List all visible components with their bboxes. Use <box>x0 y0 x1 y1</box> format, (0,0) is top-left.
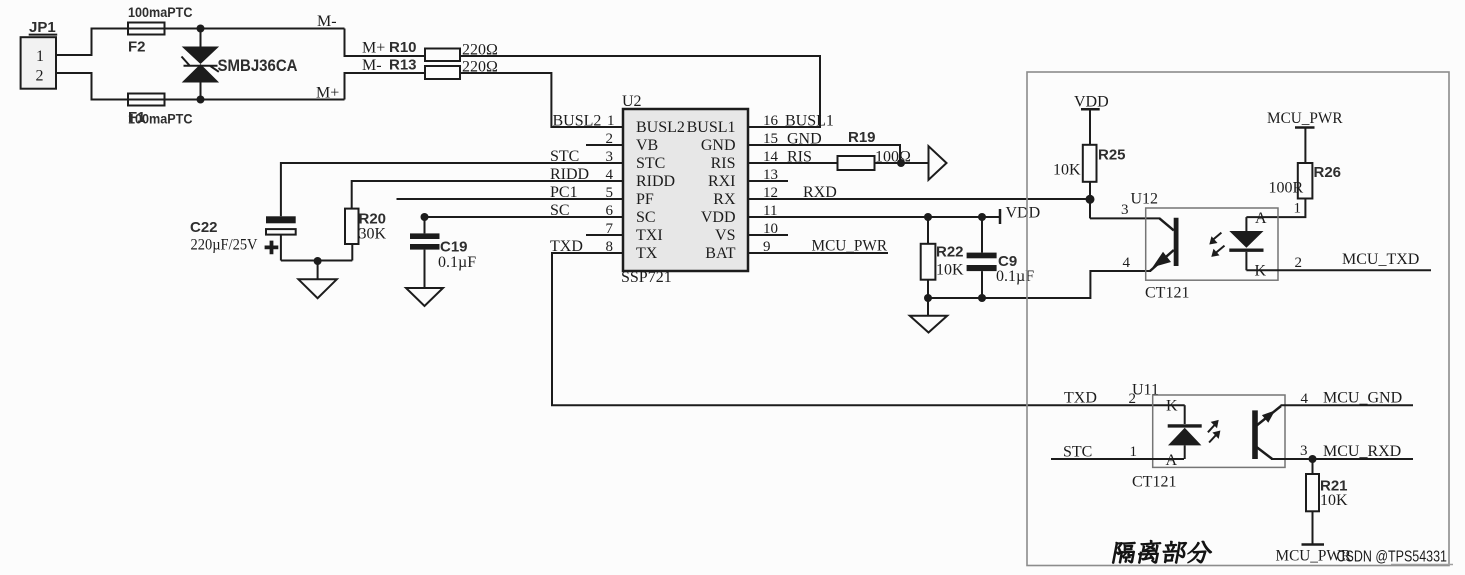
optocoupler U12 CT121 <box>1131 191 1279 302</box>
wire U12 pin2 MCU_TXD out <box>1246 269 1431 271</box>
wire U2 pin11 to VDD tick <box>748 216 1000 218</box>
svg-text:TXI: TXI <box>636 227 663 244</box>
svg-text:2: 2 <box>1129 391 1137 407</box>
svg-text:RIDD: RIDD <box>636 173 675 190</box>
wire U2 pin12 RX to R25 junction (RXD net) <box>748 198 1090 200</box>
U2 left pin names <box>636 119 685 262</box>
svg-text:BUSL1: BUSL1 <box>785 113 834 130</box>
svg-text:U2: U2 <box>622 93 642 110</box>
svg-text:BUSL2: BUSL2 <box>636 119 685 136</box>
svg-text:TXD: TXD <box>550 238 583 255</box>
resistor R26 <box>1269 163 1342 199</box>
wire R10 to BUSL1 vertical <box>460 56 820 127</box>
svg-text:M-: M- <box>317 13 337 30</box>
svg-text:3: 3 <box>1300 443 1308 459</box>
isolation section box <box>1027 72 1449 566</box>
wire U2 pin8 TX long TXD net to U11 <box>552 253 1185 405</box>
svg-text:MCU_PWR: MCU_PWR <box>1267 110 1343 127</box>
U2 pin 7 stub <box>586 234 623 236</box>
optocoupler U11 CT121 <box>1132 382 1285 491</box>
resistor R19 <box>838 129 912 170</box>
svg-text:1: 1 <box>1294 201 1302 217</box>
U2 pin 10 stub <box>748 234 788 236</box>
wire U11 pin1 STC <box>1051 458 1184 460</box>
ground symbol under C19 <box>406 288 443 306</box>
svg-text:F2: F2 <box>128 39 146 56</box>
svg-text:SC: SC <box>550 202 570 219</box>
junction on M- wire <box>197 25 205 33</box>
svg-text:CSDN @TPS54331: CSDN @TPS54331 <box>1337 549 1448 566</box>
U2 pin 2 stub <box>586 144 623 146</box>
svg-text:4: 4 <box>1123 255 1131 271</box>
U12 phototransistor <box>1150 218 1176 271</box>
svg-text:10: 10 <box>763 221 778 237</box>
resistor R25 <box>1053 145 1126 219</box>
U2 left pin numbers 2-8 <box>606 131 614 255</box>
svg-text:RIS: RIS <box>787 149 812 166</box>
U11 LED <box>1166 398 1202 469</box>
wire R25 to U12 pin3 <box>1090 217 1160 219</box>
svg-text:10K: 10K <box>1320 492 1348 509</box>
svg-text:SSP721: SSP721 <box>621 269 672 286</box>
ground rail under R22/C9 to U12 pin4 <box>928 271 1151 298</box>
U2 right pin numbers <box>763 113 779 255</box>
svg-text:JP1: JP1 <box>29 19 56 36</box>
wire C22/R20 bottom rail <box>281 260 352 262</box>
wire R19 to arrow <box>875 162 930 164</box>
svg-text:100R: 100R <box>1269 180 1304 197</box>
svg-text:STC: STC <box>1063 444 1092 461</box>
svg-text:VDD: VDD <box>1006 205 1041 222</box>
svg-text:1: 1 <box>36 48 44 65</box>
svg-text:10K: 10K <box>936 262 964 279</box>
wire U2 pin5 PC1 stub <box>397 198 624 200</box>
junction R19/GND <box>897 159 905 167</box>
svg-text:A: A <box>1255 210 1267 227</box>
svg-text:100maPTC: 100maPTC <box>128 5 193 20</box>
section title 隔离部分 (drawn glyphs) <box>1112 540 1214 563</box>
wire U2 pin4 RIDD to R20 <box>352 181 623 209</box>
svg-text:A: A <box>1166 452 1178 469</box>
svg-text:4: 4 <box>1301 391 1309 407</box>
svg-text:1: 1 <box>1130 444 1138 460</box>
svg-text:R22: R22 <box>936 244 964 261</box>
wire U2 pin14 to R19 <box>748 162 838 164</box>
svg-text:GND: GND <box>701 137 736 154</box>
svg-text:STC: STC <box>636 155 665 172</box>
svg-text:STC: STC <box>550 148 579 165</box>
svg-text:16: 16 <box>763 113 779 129</box>
resistor R20 <box>345 209 387 261</box>
svg-text:0.1µF: 0.1µF <box>996 268 1034 285</box>
svg-text:TXD: TXD <box>1064 390 1097 407</box>
power port MCU_PWR (below R21) <box>1276 511 1352 564</box>
off-page arrow symbol <box>929 146 947 180</box>
U12 LED <box>1229 210 1267 280</box>
svg-text:K: K <box>1166 398 1178 415</box>
svg-text:R26: R26 <box>1314 164 1342 181</box>
svg-text:BUSL1: BUSL1 <box>687 119 736 136</box>
svg-text:SC: SC <box>636 209 656 226</box>
svg-text:R13: R13 <box>389 57 417 74</box>
svg-text:RXI: RXI <box>708 173 736 190</box>
svg-text:MCU_TXD: MCU_TXD <box>1342 251 1419 268</box>
svg-text:30K: 30K <box>359 226 387 243</box>
wire M- corner down to R10 row <box>345 29 426 57</box>
wire U2 pin6 SC to C19 <box>425 216 624 218</box>
svg-text:3: 3 <box>1121 202 1129 218</box>
svg-text:2: 2 <box>1295 255 1303 271</box>
svg-text:220µF/25V: 220µF/25V <box>191 237 258 254</box>
svg-text:0.1µF: 0.1µF <box>438 254 476 271</box>
svg-text:R19: R19 <box>848 129 876 146</box>
svg-text:U11: U11 <box>1132 382 1159 399</box>
svg-text:MCU_GND: MCU_GND <box>1323 390 1402 407</box>
junction C9 bottom <box>978 294 986 302</box>
svg-text:R25: R25 <box>1098 147 1126 164</box>
wire F2 to M- corner <box>128 28 345 30</box>
wire JP1 pin1 to F2 <box>56 29 128 56</box>
fuse F1 <box>128 94 193 127</box>
junction ground rail <box>314 257 322 265</box>
wire U11 pin4 MCU_GND out <box>1281 404 1414 406</box>
svg-text:BUSL2: BUSL2 <box>553 113 602 130</box>
U11 light arrows <box>1208 420 1221 443</box>
svg-text:C19: C19 <box>440 239 468 256</box>
power port VDD (R25) <box>1074 94 1109 145</box>
junction R25/RXD <box>1086 195 1095 204</box>
power port VDD (pin11) <box>1000 205 1040 225</box>
watermark CSDN @TPS54331 <box>1337 549 1454 566</box>
capacitor C22 polarized <box>190 216 296 260</box>
svg-text:RIS: RIS <box>711 155 736 172</box>
svg-text:10K: 10K <box>1053 162 1081 179</box>
ground symbol under C22 <box>298 261 336 298</box>
svg-text:VDD: VDD <box>701 209 736 226</box>
resistor R22 <box>921 217 964 298</box>
svg-text:MCU_PWR: MCU_PWR <box>812 238 888 255</box>
svg-text:VB: VB <box>636 137 658 154</box>
junction R21 top <box>1309 455 1317 463</box>
resistor R13 <box>389 57 498 80</box>
wire U11 pin3 MCU_RXD out <box>1271 458 1413 460</box>
connector JP1 <box>21 19 58 89</box>
svg-text:PF: PF <box>636 191 654 208</box>
wire R26 to U12 pin1 LED anode <box>1246 199 1305 218</box>
junction C9 top <box>978 213 986 221</box>
resistor R21 <box>1306 459 1348 511</box>
junction on M+ wire <box>197 96 205 104</box>
svg-text:C22: C22 <box>190 219 218 236</box>
TVS diode D SMBJ36CA <box>182 29 298 100</box>
svg-text:2: 2 <box>36 68 44 85</box>
U11 phototransistor <box>1255 406 1281 459</box>
svg-text:100maPTC: 100maPTC <box>128 112 193 127</box>
svg-text:MCU_RXD: MCU_RXD <box>1323 443 1401 460</box>
wire M+ corner up to R13 row <box>345 73 426 100</box>
svg-text:VS: VS <box>715 227 735 244</box>
junction R22 top <box>924 213 932 221</box>
svg-text:SMBJ36CA: SMBJ36CA <box>218 57 298 75</box>
svg-text:PC1: PC1 <box>550 184 578 201</box>
U12 light arrows <box>1209 233 1224 257</box>
IC U2 SSP721 body <box>621 93 748 286</box>
capacitor C19 <box>410 217 476 288</box>
power port MCU_PWR (R26) <box>1267 110 1343 163</box>
svg-text:CT121: CT121 <box>1145 285 1189 302</box>
svg-text:GND: GND <box>787 131 822 148</box>
svg-text:13: 13 <box>763 167 778 183</box>
wire U2 pin15 GND to R19 output junction <box>748 145 900 163</box>
wire JP1 pin2 to F1 <box>56 73 128 100</box>
svg-text:M+: M+ <box>316 85 339 102</box>
svg-text:RXD: RXD <box>803 184 837 201</box>
svg-text:M-: M- <box>362 57 382 74</box>
svg-text:BAT: BAT <box>705 245 735 262</box>
wire U2 pin9 BAT <box>748 252 888 254</box>
U2 right pin names <box>687 119 736 262</box>
wire F1 to M+ corner <box>128 99 345 101</box>
svg-text:TX: TX <box>636 245 658 262</box>
wire U2 pin3 STC to C22 <box>281 163 623 216</box>
svg-text:R10: R10 <box>389 39 417 56</box>
svg-text:1: 1 <box>607 113 615 129</box>
fuse F2 <box>128 5 193 56</box>
svg-text:CT121: CT121 <box>1132 474 1176 491</box>
junction R22 bottom <box>924 294 932 302</box>
capacitor C9 <box>967 217 1035 298</box>
U2 pin 13 stub <box>748 180 788 182</box>
ground symbol under R22 <box>910 298 947 333</box>
resistor R10 <box>389 39 498 61</box>
svg-text:M+: M+ <box>362 40 385 57</box>
net label BUSL2 pin 1 <box>553 113 615 130</box>
wire R13 to U2 pin1 BUSL2 <box>460 73 623 127</box>
svg-text:RIDD: RIDD <box>550 166 589 183</box>
svg-text:RX: RX <box>713 191 736 208</box>
svg-text:U12: U12 <box>1131 191 1159 208</box>
junction C19 top <box>421 213 429 221</box>
